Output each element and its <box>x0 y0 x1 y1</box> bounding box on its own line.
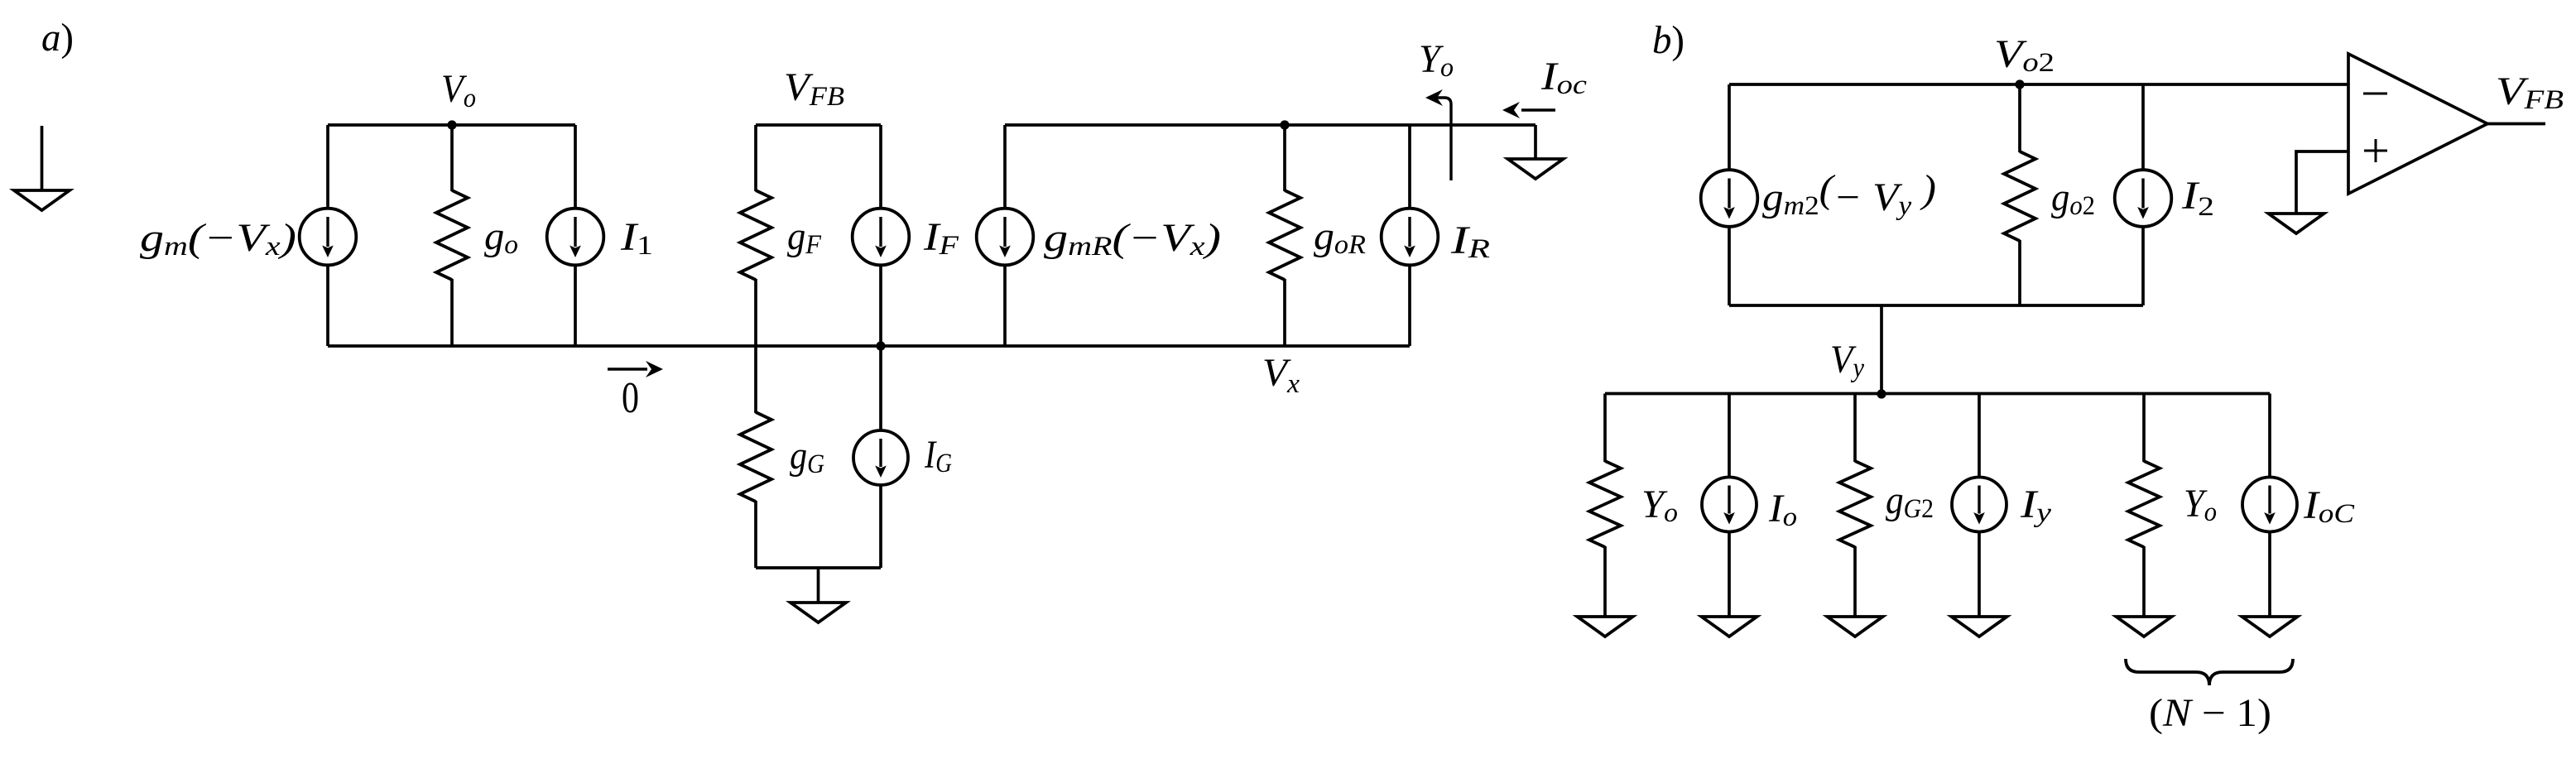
current source gm(-Vx) <box>300 209 357 266</box>
resistor gG <box>740 412 771 502</box>
svg-text:IoC: IoC <box>2303 483 2355 529</box>
svg-text:gmR(−Vx): gmR(−Vx) <box>1044 216 1221 262</box>
svg-text:IF: IF <box>923 215 959 261</box>
wire gF column upper <box>754 125 757 191</box>
svg-text:VFB: VFB <box>784 65 844 112</box>
svg-text:Vy: Vy <box>1830 338 1864 383</box>
ground (floating reference, top left) <box>14 126 70 210</box>
wire goR column lower <box>1283 279 1286 346</box>
current source IR <box>1382 209 1439 266</box>
svg-text:Yo: Yo <box>1419 37 1454 83</box>
node junction dot on Vx rail <box>876 341 885 350</box>
node Vy junction dot <box>1877 389 1886 398</box>
svg-text:gF: gF <box>787 214 822 260</box>
wire go column upper <box>450 125 454 191</box>
wire gG column lower <box>754 501 757 568</box>
svg-text:Vx: Vx <box>1262 351 1300 399</box>
branch current source IoC <box>2242 394 2298 637</box>
branch current source Iy <box>1952 394 2007 637</box>
wire top rail Vo <box>328 123 575 127</box>
arrow Ioc (output current) <box>1502 102 1555 118</box>
wire op-amp plus input <box>2296 151 2348 214</box>
wire top rail Vo2 <box>1729 83 2348 86</box>
arrow 0 (current direction) <box>608 361 663 377</box>
wire IR column <box>1408 125 1411 346</box>
branch resistor gG2 <box>1828 394 1883 637</box>
svg-text:gG: gG <box>790 434 824 479</box>
current source gmR(-Vx) <box>977 209 1034 266</box>
arrow Yo (admittance looking into port) <box>1425 89 1451 180</box>
svg-text:IR: IR <box>1450 219 1490 264</box>
wire go column lower <box>450 279 454 346</box>
resistor go <box>436 190 468 280</box>
wire lower rail Vy <box>1605 392 2270 396</box>
wire IF-IG column <box>879 125 882 568</box>
svg-text:Vo: Vo <box>441 67 476 113</box>
current source IF <box>853 209 910 266</box>
wire gm column <box>326 125 329 346</box>
current source gm2(-Vy) <box>1701 170 1758 227</box>
node Vo2 junction dot <box>2015 79 2024 89</box>
svg-text:Io: Io <box>1768 487 1797 532</box>
svg-text:gG2: gG2 <box>1886 478 1934 524</box>
resistor goR <box>1269 190 1300 280</box>
branch resistor Yo (1st) <box>1578 394 1633 637</box>
current source I1 <box>547 209 604 266</box>
wire I1 column <box>574 125 577 346</box>
svg-text:goR: goR <box>1314 214 1366 260</box>
wire gm2 column <box>1728 84 1731 305</box>
current source IG <box>853 430 908 485</box>
svg-text:IG: IG <box>924 433 952 478</box>
branch resistor Yo (2nd) <box>2117 394 2172 637</box>
wire bottom rail Vx <box>328 344 1410 348</box>
svg-text:0: 0 <box>622 374 639 422</box>
resistor gF <box>740 190 771 280</box>
ground below gG-IG <box>791 568 846 622</box>
ground at right end of rail <box>1508 159 1564 179</box>
svg-text:a): a) <box>41 16 74 60</box>
svg-text:go2: go2 <box>2051 175 2095 221</box>
node Vo junction dot <box>447 120 456 129</box>
svg-text:b): b) <box>1652 18 1684 62</box>
resistor go2 <box>2004 151 2035 241</box>
svg-text:I1: I1 <box>620 215 653 261</box>
node dot goR top <box>1280 120 1289 129</box>
svg-text:gm2(− Vy ): gm2(− Vy ) <box>1762 167 1936 221</box>
brace (N-1) group <box>2126 659 2293 685</box>
svg-text:(N − 1): (N − 1) <box>2149 691 2271 735</box>
svg-text:Iy: Iy <box>2020 483 2052 528</box>
svg-text:Yo: Yo <box>1641 483 1678 528</box>
wire right-end drop to ground <box>1534 125 1537 159</box>
wire gmR column <box>1003 125 1007 346</box>
wire I2 column <box>2141 84 2145 305</box>
wire VFB rail <box>756 123 881 127</box>
svg-text:Vo2: Vo2 <box>1994 32 2055 78</box>
wire right top rail <box>1005 123 1536 127</box>
svg-text:go: go <box>484 214 518 260</box>
ground at plus input <box>2269 214 2324 233</box>
wire go2 column upper <box>2018 84 2021 152</box>
svg-text:I2: I2 <box>2181 174 2214 222</box>
svg-text:gm(−Vx): gm(−Vx) <box>140 216 296 262</box>
op-amp U1 <box>2348 54 2487 194</box>
wire gF-gG column middle <box>754 279 757 413</box>
wire box bottom rail <box>1729 304 2143 307</box>
current source I2 <box>2115 170 2172 227</box>
wire Vy stem <box>1880 305 1883 394</box>
wire goR column upper <box>1283 125 1286 191</box>
svg-text:VFB: VFB <box>2496 70 2564 115</box>
svg-text:Ioc: Ioc <box>1540 55 1588 100</box>
branch current source Io <box>1702 394 1757 637</box>
wire gG-IG bottom connector <box>756 566 881 569</box>
wire go2 column lower <box>2018 240 2021 305</box>
svg-text:Yo: Yo <box>2184 482 2217 527</box>
wire op-amp output <box>2487 122 2545 126</box>
